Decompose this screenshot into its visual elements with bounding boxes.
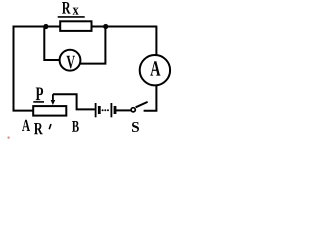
voltmeter V — [60, 50, 81, 71]
label Rx — [58, 2, 85, 17]
wire wiper arm: up over and down to battery — [53, 94, 95, 109]
node junction right — [103, 24, 108, 29]
label P — [33, 87, 44, 101]
switch S lever — [136, 102, 148, 107]
battery cell 2 long plate — [110, 103, 112, 117]
stray red mark — [7, 136, 9, 138]
wire voltmeter right branch — [81, 27, 106, 64]
rheostat wiper arrow P — [51, 94, 56, 105]
wire battery to switch pivot — [116, 109, 131, 111]
battery cell 1 long plate — [95, 103, 97, 117]
node junction left — [43, 24, 48, 29]
ammeter A — [140, 55, 170, 85]
battery cell 1 short plate — [98, 106, 101, 114]
label R' (rheostat) — [34, 123, 43, 134]
battery cell 2 short plate — [114, 106, 117, 114]
wire ammeter bottom to switch fixed contact — [144, 85, 157, 111]
label A (rheostat left terminal) — [22, 120, 30, 131]
rheostat R' box — [33, 106, 66, 116]
battery dots — [102, 109, 109, 111]
label B (rheostat right terminal) — [72, 121, 79, 132]
wire right rail top: top rail corner down to ammeter — [155, 27, 157, 57]
resistor Rx box — [60, 21, 91, 31]
wire top loop: top rail, left rail, bottom-left to rheostat — [14, 27, 158, 111]
switch S pivot — [131, 108, 135, 112]
label S — [132, 122, 139, 132]
wire voltmeter left branch — [44, 27, 59, 61]
label prime of R' — [49, 124, 51, 129]
